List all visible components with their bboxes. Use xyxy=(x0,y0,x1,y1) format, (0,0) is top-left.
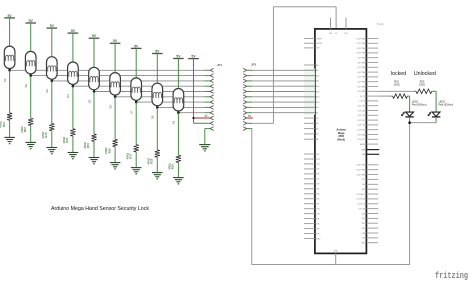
svg-text:R12: R12 xyxy=(23,127,27,132)
svg-text:D53 SS: D53 SS xyxy=(359,208,366,210)
svg-text:JP3: JP3 xyxy=(251,62,257,66)
svg-text:Red (633nm): Red (633nm) xyxy=(412,103,427,106)
svg-text:D41: D41 xyxy=(362,218,365,220)
svg-text:S4: S4 xyxy=(66,94,70,98)
svg-text:D13 PWM: D13 PWM xyxy=(357,38,366,40)
svg-text:D23: D23 xyxy=(316,159,319,161)
svg-text:D17 RX2: D17 RX2 xyxy=(358,120,366,122)
svg-text:D40: D40 xyxy=(362,213,365,215)
svg-text:D5 PWM: D5 PWM xyxy=(358,77,366,79)
svg-text:D37: D37 xyxy=(316,228,319,230)
svg-text:R14: R14 xyxy=(65,137,69,142)
svg-text:R16: R16 xyxy=(107,148,111,153)
svg-text:D50 MISO: D50 MISO xyxy=(356,194,365,196)
svg-text:D18 TX1: D18 TX1 xyxy=(358,125,365,127)
svg-text:A9: A9 xyxy=(316,69,318,72)
svg-text:IOREF: IOREF xyxy=(316,38,323,40)
svg-text:D46 PWM: D46 PWM xyxy=(357,174,366,176)
svg-text:S6: S6 xyxy=(108,105,112,109)
svg-text:220Ω: 220Ω xyxy=(394,83,400,86)
svg-text:Red (633nm): Red (633nm) xyxy=(439,103,454,106)
svg-text:S2: S2 xyxy=(24,83,28,87)
svg-text:fritzing: fritzing xyxy=(435,270,468,281)
svg-text:A5: A5 xyxy=(316,133,318,136)
svg-text:D6 PWM: D6 PWM xyxy=(358,72,366,74)
svg-text:locked: locked xyxy=(391,71,406,77)
svg-text:5V: 5V xyxy=(50,24,55,28)
svg-text:D42: D42 xyxy=(362,223,365,225)
svg-text:D0 RX: D0 RX xyxy=(360,101,366,103)
svg-text:D15 RX3: D15 RX3 xyxy=(358,110,366,112)
svg-text:5V: 5V xyxy=(71,29,76,33)
svg-text:S1: S1 xyxy=(3,78,7,82)
svg-text:D21 SCL: D21 SCL xyxy=(358,139,366,141)
svg-text:D38: D38 xyxy=(316,233,319,235)
svg-text:RX0: RX0 xyxy=(362,149,366,151)
svg-text:D12 PWM: D12 PWM xyxy=(357,43,366,45)
svg-text:R17: R17 xyxy=(128,153,132,158)
svg-text:D1 TX: D1 TX xyxy=(360,96,366,98)
svg-text:D20 SDA: D20 SDA xyxy=(357,133,366,136)
svg-text:5V: 5V xyxy=(155,49,160,53)
svg-text:A14: A14 xyxy=(316,96,319,99)
svg-text:3V3: 3V3 xyxy=(329,33,332,35)
svg-text:D30: D30 xyxy=(316,194,319,196)
svg-text:D33: D33 xyxy=(316,209,319,211)
svg-text:D9 PWM: D9 PWM xyxy=(358,58,366,60)
svg-text:GND: GND xyxy=(361,243,366,245)
svg-text:D14 TX3: D14 TX3 xyxy=(358,106,365,108)
svg-text:5V: 5V xyxy=(191,55,196,59)
svg-text:D47: D47 xyxy=(362,179,365,181)
svg-text:D43: D43 xyxy=(362,228,365,230)
svg-text:A1: A1 xyxy=(316,112,318,115)
svg-text:D27: D27 xyxy=(316,179,319,181)
svg-text:D25: D25 xyxy=(316,169,319,171)
svg-text:D22: D22 xyxy=(316,154,319,156)
svg-text:R11: R11 xyxy=(2,122,6,127)
svg-text:D2 PWM: D2 PWM xyxy=(358,91,366,93)
svg-text:A15: A15 xyxy=(316,101,319,104)
svg-text:Unlocked: Unlocked xyxy=(414,71,436,77)
svg-text:D39: D39 xyxy=(362,238,365,240)
svg-text:5V: 5V xyxy=(92,34,97,38)
svg-text:S7: S7 xyxy=(130,110,134,114)
svg-text:D4 PWM: D4 PWM xyxy=(358,82,366,84)
svg-text:JP1: JP1 xyxy=(217,63,223,67)
svg-text:S9: S9 xyxy=(172,121,176,125)
svg-text:D36: D36 xyxy=(316,223,319,225)
svg-text:D10 PWM: D10 PWM xyxy=(357,53,366,55)
svg-text:GND: GND xyxy=(316,238,321,240)
svg-text:220Ω: 220Ω xyxy=(419,83,425,86)
svg-text:3V3: 3V3 xyxy=(316,48,319,50)
svg-text:A8: A8 xyxy=(316,64,318,67)
svg-text:S8: S8 xyxy=(151,115,155,119)
svg-text:D24: D24 xyxy=(316,164,319,166)
svg-text:D19 RX1: D19 RX1 xyxy=(358,130,366,132)
svg-text:R13: R13 xyxy=(44,132,48,137)
svg-text:D45 PWM: D45 PWM xyxy=(357,170,366,172)
svg-text:D32: D32 xyxy=(316,204,319,206)
svg-text:A13: A13 xyxy=(316,90,319,93)
svg-text:A2: A2 xyxy=(316,117,318,120)
svg-text:R19: R19 xyxy=(171,164,175,169)
svg-text:S5: S5 xyxy=(87,99,91,103)
svg-text:5V: 5V xyxy=(8,14,13,18)
svg-text:D49: D49 xyxy=(362,189,365,191)
svg-text:Arduino Mega Hand Sensor Secur: Arduino Mega Hand Sensor Security Lock xyxy=(51,206,149,212)
svg-text:TX0: TX0 xyxy=(362,154,365,156)
svg-text:A12: A12 xyxy=(316,85,319,88)
svg-text:A6: A6 xyxy=(316,138,318,141)
svg-text:R15: R15 xyxy=(86,143,90,148)
svg-text:D51 MOSI: D51 MOSI xyxy=(356,199,365,201)
svg-text:5V: 5V xyxy=(29,19,34,23)
svg-text:5V: 5V xyxy=(134,44,139,48)
svg-text:5V: 5V xyxy=(176,54,181,58)
svg-text:D8 PWM: D8 PWM xyxy=(358,62,366,64)
svg-text:D38: D38 xyxy=(362,233,365,235)
svg-text:D7 PWM: D7 PWM xyxy=(358,67,366,69)
svg-text:R18: R18 xyxy=(150,158,154,163)
svg-text:D11 PWM: D11 PWM xyxy=(357,48,366,50)
svg-text:D52 SCK: D52 SCK xyxy=(357,204,366,206)
svg-text:D48: D48 xyxy=(362,184,365,186)
svg-text:A3: A3 xyxy=(316,122,318,125)
svg-text:A4: A4 xyxy=(316,127,318,130)
svg-text:D16 TX2: D16 TX2 xyxy=(358,115,365,117)
svg-text:D29: D29 xyxy=(316,189,319,191)
svg-text:(Rev3): (Rev3) xyxy=(337,139,345,142)
svg-text:5V: 5V xyxy=(248,115,251,118)
svg-text:GND: GND xyxy=(334,251,339,253)
svg-text:D28: D28 xyxy=(316,184,319,186)
svg-text:AREF: AREF xyxy=(360,143,366,146)
svg-text:Part1: Part1 xyxy=(377,22,384,26)
svg-text:D44 PWM: D44 PWM xyxy=(357,165,366,167)
svg-text:5V: 5V xyxy=(113,39,118,43)
svg-text:D31: D31 xyxy=(316,199,319,201)
svg-text:RESET: RESET xyxy=(316,43,323,45)
svg-text:S3: S3 xyxy=(45,89,49,93)
svg-text:A0: A0 xyxy=(316,106,318,109)
svg-text:D26: D26 xyxy=(316,174,319,176)
svg-text:A11: A11 xyxy=(316,80,319,83)
svg-text:A10: A10 xyxy=(316,74,319,77)
svg-text:D35: D35 xyxy=(316,218,319,220)
svg-text:D3 PWM: D3 PWM xyxy=(358,86,366,88)
svg-text:5V: 5V xyxy=(205,115,208,118)
svg-text:D34: D34 xyxy=(316,213,319,215)
